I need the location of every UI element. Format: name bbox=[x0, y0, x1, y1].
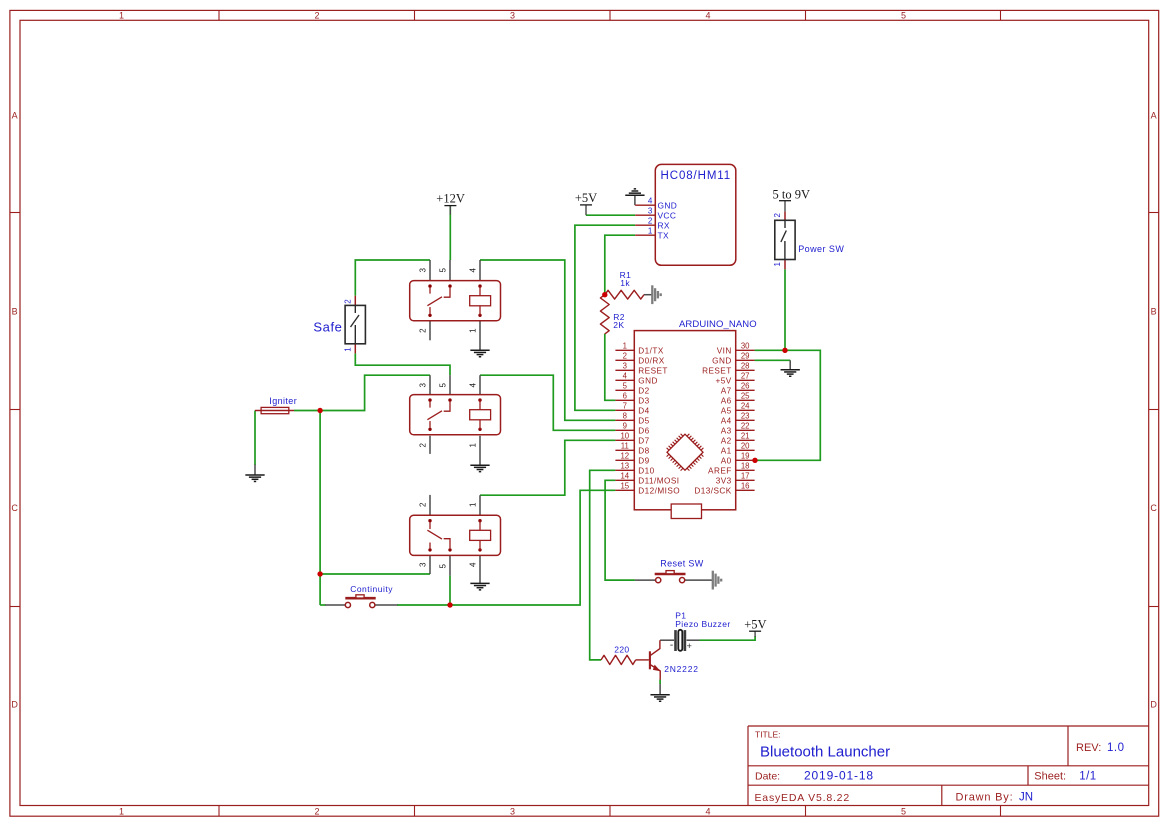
svg-text:D: D bbox=[1150, 700, 1157, 710]
svg-text:Continuity: Continuity bbox=[350, 584, 393, 594]
svg-text:D1/TX: D1/TX bbox=[638, 346, 664, 355]
svg-text:2: 2 bbox=[419, 502, 428, 507]
svg-text:2: 2 bbox=[314, 807, 319, 817]
svg-text:HC08/HM11: HC08/HM11 bbox=[661, 170, 732, 182]
svg-text:D10: D10 bbox=[638, 466, 654, 475]
svg-text:A4: A4 bbox=[721, 416, 732, 425]
svg-text:A5: A5 bbox=[721, 406, 732, 415]
svg-text:28: 28 bbox=[741, 362, 750, 371]
svg-text:EasyEDA V5.8.22: EasyEDA V5.8.22 bbox=[755, 792, 850, 804]
svg-text:ARDUINO_NANO: ARDUINO_NANO bbox=[679, 319, 757, 330]
svg-text:3: 3 bbox=[419, 383, 428, 388]
svg-text:D8: D8 bbox=[638, 446, 649, 455]
svg-text:3: 3 bbox=[419, 562, 428, 567]
svg-text:D12/MISO: D12/MISO bbox=[638, 486, 680, 495]
svg-text:VCC: VCC bbox=[658, 210, 677, 220]
svg-text:1: 1 bbox=[648, 226, 653, 235]
svg-text:3: 3 bbox=[510, 807, 515, 817]
svg-text:+5V: +5V bbox=[716, 376, 732, 385]
svg-text:16: 16 bbox=[741, 482, 750, 491]
svg-text:AREF: AREF bbox=[708, 466, 732, 475]
svg-text:Power SW: Power SW bbox=[798, 244, 844, 254]
svg-text:1k: 1k bbox=[620, 278, 630, 288]
svg-text:1.0: 1.0 bbox=[1107, 742, 1125, 754]
svg-text:REV:: REV: bbox=[1076, 742, 1101, 754]
svg-text:C: C bbox=[1150, 503, 1157, 513]
svg-text:27: 27 bbox=[741, 372, 750, 381]
svg-text:2: 2 bbox=[419, 443, 428, 448]
svg-text:1: 1 bbox=[469, 328, 478, 333]
svg-text:RX: RX bbox=[658, 220, 670, 230]
svg-text:Date:: Date: bbox=[755, 770, 780, 782]
svg-text:3: 3 bbox=[648, 206, 653, 215]
svg-text:1: 1 bbox=[623, 342, 627, 351]
svg-text:22: 22 bbox=[741, 422, 750, 431]
svg-text:GND: GND bbox=[658, 200, 678, 210]
svg-text:2019-01-18: 2019-01-18 bbox=[804, 768, 874, 782]
svg-text:4: 4 bbox=[469, 383, 478, 388]
svg-text:RESET: RESET bbox=[702, 366, 732, 375]
svg-text:A0: A0 bbox=[721, 456, 732, 465]
svg-text:5: 5 bbox=[439, 383, 448, 388]
svg-text:D11/MOSI: D11/MOSI bbox=[638, 476, 679, 485]
svg-text:A6: A6 bbox=[721, 396, 732, 405]
svg-text:11: 11 bbox=[621, 442, 629, 451]
svg-text:4: 4 bbox=[648, 196, 653, 205]
svg-text:5: 5 bbox=[623, 382, 628, 391]
svg-text:TITLE:: TITLE: bbox=[755, 729, 781, 739]
svg-text:D3: D3 bbox=[638, 396, 649, 405]
svg-text:2: 2 bbox=[648, 216, 653, 225]
svg-text:+12V: +12V bbox=[436, 192, 465, 206]
svg-text:17: 17 bbox=[741, 472, 750, 481]
svg-text:3: 3 bbox=[510, 11, 515, 21]
svg-text:3: 3 bbox=[623, 362, 627, 371]
svg-text:Safe: Safe bbox=[313, 320, 342, 335]
svg-text:D4: D4 bbox=[638, 406, 649, 415]
svg-text:2N2222: 2N2222 bbox=[664, 664, 699, 674]
svg-text:24: 24 bbox=[741, 402, 750, 411]
svg-text:12: 12 bbox=[620, 452, 629, 461]
svg-text:1: 1 bbox=[469, 502, 478, 507]
svg-text:GND: GND bbox=[712, 356, 732, 365]
svg-text:GND: GND bbox=[638, 376, 658, 385]
svg-text:5: 5 bbox=[439, 564, 448, 569]
svg-text:2: 2 bbox=[623, 352, 627, 361]
svg-text:B: B bbox=[12, 307, 18, 317]
svg-text:4: 4 bbox=[705, 807, 710, 817]
svg-text:5 to 9V: 5 to 9V bbox=[773, 187, 811, 201]
svg-text:Igniter: Igniter bbox=[269, 396, 297, 406]
svg-text:220: 220 bbox=[614, 644, 629, 654]
svg-text:A: A bbox=[12, 110, 18, 120]
svg-text:6: 6 bbox=[623, 392, 627, 401]
svg-text:1: 1 bbox=[119, 11, 124, 21]
svg-text:A3: A3 bbox=[721, 426, 732, 435]
svg-text:Reset SW: Reset SW bbox=[660, 559, 703, 569]
svg-text:7: 7 bbox=[623, 402, 627, 411]
svg-text:+: + bbox=[687, 641, 692, 651]
svg-text:D5: D5 bbox=[638, 416, 649, 425]
svg-text:+5V: +5V bbox=[744, 618, 766, 632]
svg-text:D13/SCK: D13/SCK bbox=[694, 486, 731, 495]
svg-text:2: 2 bbox=[773, 213, 782, 218]
svg-text:10: 10 bbox=[620, 432, 629, 441]
svg-text:B: B bbox=[1151, 307, 1157, 317]
svg-text:D9: D9 bbox=[638, 456, 649, 465]
svg-text:21: 21 bbox=[741, 432, 750, 441]
svg-text:30: 30 bbox=[741, 342, 750, 351]
svg-text:TX: TX bbox=[658, 230, 669, 240]
svg-text:RESET: RESET bbox=[638, 366, 668, 375]
svg-text:-: - bbox=[670, 640, 673, 651]
svg-text:A: A bbox=[1151, 110, 1157, 120]
svg-text:3V3: 3V3 bbox=[716, 476, 732, 485]
svg-text:Bluetooth Launcher: Bluetooth Launcher bbox=[760, 744, 890, 761]
svg-text:1: 1 bbox=[343, 347, 352, 352]
svg-text:8: 8 bbox=[623, 412, 627, 421]
svg-text:5: 5 bbox=[901, 11, 906, 21]
svg-text:23: 23 bbox=[741, 412, 750, 421]
svg-text:JN: JN bbox=[1019, 791, 1033, 803]
svg-text:1: 1 bbox=[469, 443, 478, 448]
svg-text:+5V: +5V bbox=[575, 191, 597, 205]
svg-text:Piezo Buzzer: Piezo Buzzer bbox=[675, 619, 730, 629]
svg-text:VIN: VIN bbox=[717, 346, 732, 355]
svg-text:2: 2 bbox=[314, 11, 319, 21]
svg-text:14: 14 bbox=[620, 472, 629, 481]
svg-text:4: 4 bbox=[469, 562, 478, 567]
svg-text:D6: D6 bbox=[638, 426, 649, 435]
svg-text:18: 18 bbox=[741, 462, 750, 471]
svg-text:2K: 2K bbox=[613, 320, 624, 330]
svg-text:2: 2 bbox=[343, 299, 352, 304]
svg-text:D0/RX: D0/RX bbox=[638, 356, 664, 365]
svg-text:1: 1 bbox=[773, 262, 782, 267]
svg-text:D2: D2 bbox=[638, 386, 649, 395]
svg-text:1/1: 1/1 bbox=[1079, 771, 1097, 783]
svg-text:4: 4 bbox=[469, 268, 478, 273]
svg-text:Drawn By:: Drawn By: bbox=[956, 791, 1014, 803]
svg-text:D: D bbox=[11, 700, 18, 710]
svg-text:29: 29 bbox=[741, 352, 750, 361]
svg-text:1: 1 bbox=[119, 807, 124, 817]
svg-text:3: 3 bbox=[419, 268, 428, 273]
svg-text:19: 19 bbox=[741, 452, 750, 461]
svg-text:20: 20 bbox=[741, 442, 750, 451]
svg-text:25: 25 bbox=[741, 392, 750, 401]
svg-text:9: 9 bbox=[623, 422, 627, 431]
svg-text:2: 2 bbox=[419, 328, 428, 333]
svg-text:5: 5 bbox=[901, 807, 906, 817]
svg-text:4: 4 bbox=[623, 372, 628, 381]
svg-text:26: 26 bbox=[741, 382, 750, 391]
svg-text:A7: A7 bbox=[721, 386, 732, 395]
svg-text:A2: A2 bbox=[721, 436, 732, 445]
svg-text:13: 13 bbox=[620, 462, 629, 471]
svg-text:5: 5 bbox=[439, 268, 448, 273]
svg-text:15: 15 bbox=[620, 482, 629, 491]
svg-text:A1: A1 bbox=[721, 446, 732, 455]
svg-text:4: 4 bbox=[705, 11, 710, 21]
svg-text:D7: D7 bbox=[638, 436, 649, 445]
svg-text:Sheet:: Sheet: bbox=[1034, 771, 1066, 783]
svg-text:C: C bbox=[11, 503, 18, 513]
